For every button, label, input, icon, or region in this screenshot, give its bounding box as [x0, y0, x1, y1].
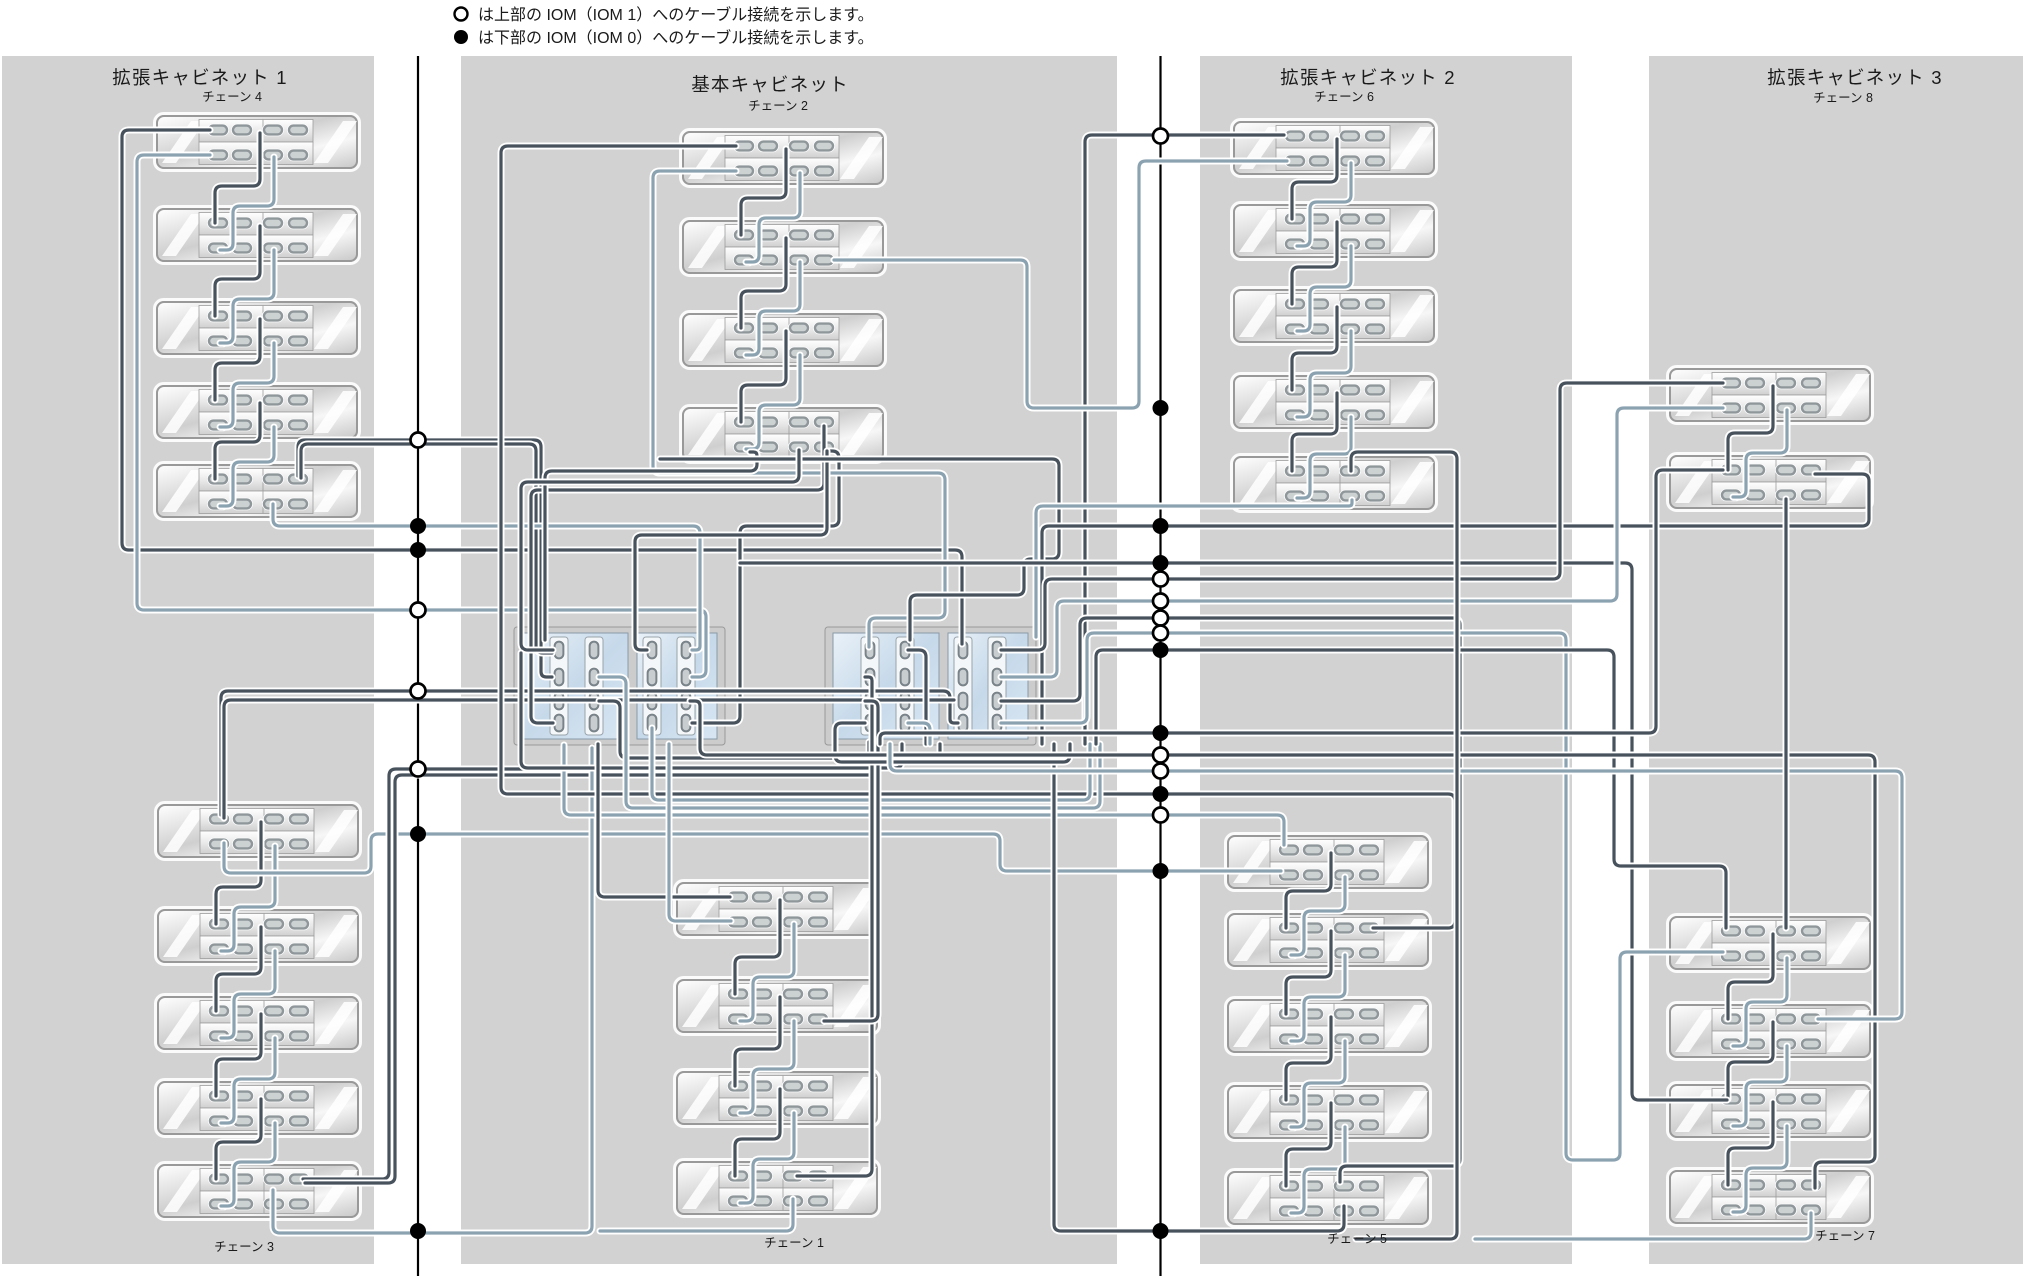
svg-text:チェーン 5: チェーン 5	[1327, 1232, 1387, 1246]
svg-text:は上部の IOM（IOM 1）へのケーブル接続を示します。: は上部の IOM（IOM 1）へのケーブル接続を示します。	[478, 5, 874, 24]
svg-text:チェーン 6: チェーン 6	[1314, 90, 1374, 104]
svg-text:基本キャビネット: 基本キャビネット	[691, 74, 849, 95]
svg-text:チェーン 1: チェーン 1	[764, 1236, 824, 1250]
svg-text:拡張キャビネット 3: 拡張キャビネット 3	[1767, 67, 1942, 88]
svg-text:チェーン 3: チェーン 3	[214, 1240, 274, 1254]
svg-text:は下部の IOM（IOM 0）へのケーブル接続を示します。: は下部の IOM（IOM 0）へのケーブル接続を示します。	[478, 28, 874, 47]
svg-text:拡張キャビネット 1: 拡張キャビネット 1	[112, 67, 287, 88]
svg-text:チェーン 7: チェーン 7	[1815, 1229, 1875, 1243]
svg-text:チェーン 4: チェーン 4	[202, 90, 262, 104]
svg-text:チェーン 8: チェーン 8	[1813, 91, 1873, 105]
svg-text:拡張キャビネット 2: 拡張キャビネット 2	[1280, 67, 1455, 88]
svg-text:チェーン 2: チェーン 2	[748, 99, 808, 113]
